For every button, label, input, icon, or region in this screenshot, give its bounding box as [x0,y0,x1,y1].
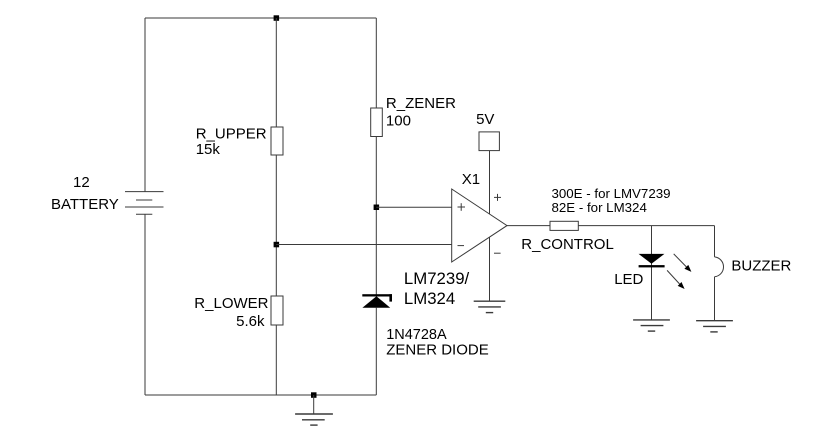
resistor R_CONTROL [550,221,578,230]
battery B1 [125,192,164,215]
svg-text:5.6k: 5.6k [236,313,265,330]
LED emission arrow 2 [667,270,685,289]
svg-text:1N4728A: 1N4728A [386,327,447,343]
wire left branch lower (battery -) [144,214,146,395]
wire bottom rail [145,394,376,396]
resistor R_UPPER [271,127,283,155]
zener diode D1 (cathode bar with hook + anode triangle) [362,294,392,308]
svg-text:12: 12 [73,174,90,191]
node junction bottom rail / ground (dot) [311,392,317,398]
wire middle branch upper [275,18,277,127]
ground LED [633,320,670,331]
op-amp V+ pin symbol [494,194,501,201]
svg-text:LED: LED [614,271,643,288]
ground op-amp [474,301,506,312]
svg-text:100: 100 [386,112,411,129]
node junction divider / op-amp minus (dot) [274,242,280,248]
wire zener branch lower [375,308,377,395]
wire output rail [507,225,715,227]
resistor R_LOWER [271,296,283,325]
buzzer BZ1 (arc) [715,257,724,277]
svg-text:BUZZER: BUZZER [731,257,791,274]
op-amp V- pin symbol [494,252,501,254]
svg-text:R_ZENER: R_ZENER [386,95,456,112]
svg-text:15k: 15k [196,141,221,158]
svg-text:300E - for LMV7239: 300E - for LMV7239 [552,186,671,201]
wire middle branch lower [275,325,277,395]
op-amp minus input symbol [458,245,465,247]
wire top rail [145,17,376,19]
wire op-amp power rail [489,151,491,302]
op-amp X1 triangle [452,189,507,262]
svg-text:R_LOWER: R_LOWER [194,295,268,312]
resistor R_ZENER [371,108,383,137]
svg-text:LM324: LM324 [404,289,455,308]
LED emission arrow 1 [674,254,692,272]
wire zener branch upper [375,18,377,108]
svg-text:82E - for LM324: 82E - for LM324 [552,200,647,215]
wire buzzer branch lower [714,277,716,321]
wire op-amp plus input [376,206,451,208]
svg-text:BATTERY: BATTERY [51,196,119,213]
wire zener branch mid [375,137,377,297]
power supply 5V box [479,132,499,151]
svg-text:LM7239/: LM7239/ [404,269,470,288]
svg-text:X1: X1 [462,171,480,188]
svg-text:5V: 5V [476,111,494,128]
wire LED branch [651,226,653,320]
op-amp plus input symbol [458,203,466,211]
ground main [295,395,333,425]
svg-text:R_UPPER: R_UPPER [196,126,267,143]
LED D2 (triangle + cathode bar) [639,254,665,268]
wire buzzer branch upper [714,226,716,257]
svg-text:ZENER DIODE: ZENER DIODE [386,342,489,359]
wire middle branch mid [275,155,277,296]
node junction top rail / R_UPPER (dot) [274,15,280,20]
node junction zener / op-amp plus (dot) [374,205,380,211]
wire left branch upper (battery +) [144,18,146,192]
svg-text:R_CONTROL: R_CONTROL [521,236,614,253]
ground buzzer [696,321,733,332]
wire op-amp minus input [276,244,451,246]
